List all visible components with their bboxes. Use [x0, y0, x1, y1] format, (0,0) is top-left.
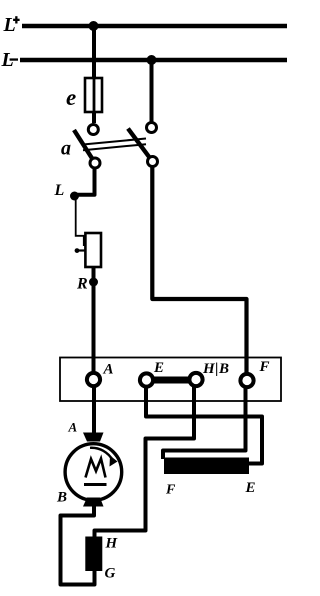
switch a pole2 bottom contact — [148, 157, 158, 167]
svg-text:R: R — [76, 276, 88, 293]
wire motor B to winding G (bottom loop) — [61, 505, 95, 585]
switch a pole2 blade — [128, 129, 153, 162]
svg-text:E: E — [153, 360, 164, 376]
svg-text:A: A — [103, 362, 114, 378]
terminal A — [87, 373, 100, 386]
terminal F — [240, 374, 253, 387]
wire terminal E to field winding E end — [146, 387, 262, 464]
switch a pole1 blade — [74, 130, 95, 163]
wire pole1 bottom contact to node L — [75, 168, 95, 195]
node on L+ — [89, 21, 99, 31]
fuse e — [85, 78, 102, 112]
motor rotation arrow — [90, 448, 113, 461]
wire node L to starter wiper (thin) — [76, 199, 85, 236]
terminal E — [140, 373, 153, 386]
switch a pole1 top contact — [88, 125, 98, 135]
svg-text:L: L — [54, 182, 65, 199]
bus L+ — [22, 24, 287, 29]
svg-text:F: F — [165, 483, 176, 498]
wire pole2 bottom contact to terminal F — [152, 167, 246, 374]
wire winding H to terminal H|B — [95, 387, 195, 538]
motor M1 armature circle — [65, 444, 122, 501]
switch linkage (double line) — [83, 139, 146, 145]
wire L- node to switch pole2 top contact — [150, 60, 154, 122]
wire terminal A to motor brush — [92, 386, 96, 434]
jumper link E to H|B — [147, 377, 197, 384]
motor letter M — [86, 459, 106, 478]
wire node R to terminal A — [92, 282, 96, 373]
motor brush bottom — [83, 498, 104, 507]
bus L- — [20, 58, 287, 63]
svg-text:H|B: H|B — [202, 361, 229, 377]
starter resistor R box — [85, 233, 101, 267]
field winding F-E — [164, 458, 249, 475]
svg-text:B: B — [56, 490, 67, 506]
node R — [89, 278, 98, 287]
motor brush top — [83, 433, 104, 442]
starter wiper contact tick — [83, 236, 86, 247]
switch a pole1 bottom contact — [90, 158, 100, 168]
svg-text:L: L — [3, 14, 16, 36]
wire L+ node to switch pole1 (through fuse, crossing L-) — [92, 26, 96, 123]
svg-text:A: A — [68, 420, 78, 435]
terminal board — [60, 358, 281, 402]
svg-text:H: H — [105, 536, 119, 552]
svg-text:G: G — [105, 566, 116, 582]
terminal H|B — [189, 373, 202, 386]
svg-text:F: F — [259, 359, 270, 375]
starter lower tap stub — [76, 249, 86, 251]
node L — [70, 192, 79, 201]
svg-text:a: a — [61, 138, 71, 160]
node on L- — [147, 55, 157, 65]
svg-text:E: E — [245, 480, 256, 496]
interpole winding G-H — [85, 537, 102, 572]
wire R box to node R — [92, 267, 96, 282]
svg-text:e: e — [66, 85, 76, 110]
motor underline — [84, 483, 107, 486]
wire terminal F to field winding F end — [163, 388, 246, 460]
switch a pole2 top contact — [147, 123, 157, 133]
